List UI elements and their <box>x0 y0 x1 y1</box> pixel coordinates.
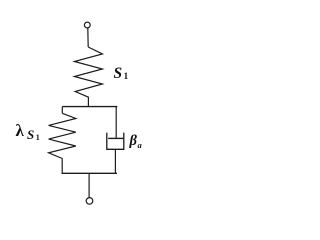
wire top horizontal bar <box>62 106 117 108</box>
dashpot cylinder cup <box>107 133 124 150</box>
label beta-a (dashpot) <box>130 133 142 150</box>
label S1 (parallel spring) <box>27 127 40 143</box>
wire left lower rod <box>61 159 63 174</box>
spring S1 (series) <box>74 47 102 106</box>
wire bottom horizontal bar <box>62 172 117 174</box>
dashpot piston plate <box>108 137 123 139</box>
terminal circle top <box>84 22 90 28</box>
wire top rod <box>87 28 89 47</box>
label lambda <box>16 121 24 141</box>
wire bottom stub <box>88 173 90 197</box>
spring lambda-S1 (parallel, left) <box>49 113 76 158</box>
wire right branch rod <box>115 107 117 139</box>
label S1 (series spring) <box>114 65 129 83</box>
wire left branch tick <box>61 107 63 114</box>
wire right lower rod <box>114 149 116 173</box>
terminal circle bottom <box>86 198 93 205</box>
